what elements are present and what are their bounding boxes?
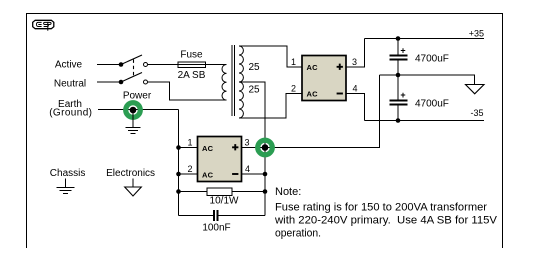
wire -35 rail [365,120,485,122]
wire bottom row right of 100nF [219,215,266,217]
wire secondary top to bridge BR1 pin 1 [239,46,302,67]
wire center tap down through green node to bottom row [239,82,265,216]
capacitor C2 plates [390,101,408,105]
svg-text:-35: -35 [470,108,483,118]
junction dot +35 rail / C1 [396,36,401,41]
transformer T1 secondary winding bottom [239,82,243,118]
svg-text:3: 3 [352,57,357,67]
svg-text:3: 3 [244,138,249,148]
electronics ground symbol [132,179,134,188]
junction dot mid rail [396,73,401,78]
wire Active switch to fuse to transformer primary [148,64,227,66]
wire mid rail to output ground [380,75,475,85]
junction dot resistor row left [176,189,181,194]
svg-text:+35: +35 [469,29,484,39]
BR2 label plus [232,144,238,150]
junction dot resistor row right [263,189,268,194]
ESP logo [33,20,54,31]
border frame [27,14,503,249]
power earth stem [132,110,134,128]
switch SW1b pole dot [119,80,124,85]
transformer T1 primary winding [222,65,227,101]
switch SW1a throw contact [144,63,148,67]
bridge rectifier BR1 body [302,56,346,101]
fuse F1 body [178,62,206,68]
bridge rectifier BR2 body [198,137,242,182]
green node ring [258,140,273,155]
svg-text:Power: Power [123,91,152,102]
wire Active row [97,64,121,66]
BR1 label plus [337,64,343,70]
svg-text:AC: AC [307,63,319,72]
wire secondary bottom to bridge BR1 pin 2 [239,94,302,119]
BR2 label minus [232,173,238,175]
svg-text:25: 25 [249,62,261,73]
wire BR2 pin 1 stub [179,147,198,149]
junction dot -35 rail / C2 [396,118,401,123]
wire BR2 pin 2 stub [179,173,198,175]
capacitor C3 plates [214,210,218,221]
wire BR2 pin 4 stub [242,173,266,175]
BR1 label minus [337,93,343,95]
svg-text:Note:: Note: [275,186,301,198]
switch SW1a pole dot [119,62,124,67]
wire capacitor C2 top lead [397,75,399,100]
svg-text:2: 2 [187,164,192,174]
svg-text:25: 25 [249,85,261,96]
svg-text:AC: AC [202,144,214,153]
svg-text:2A SB: 2A SB [178,70,206,81]
resistor R1 body [207,188,232,196]
switch SW1b throw contact [144,80,148,84]
svg-text:10/1W: 10/1W [210,196,239,207]
wire green node to mid rail [265,75,380,148]
svg-text:4: 4 [245,164,250,174]
junction dot BR2 pin1 [176,145,181,150]
wire BR1 pin 4 to -35 rail [346,94,365,121]
power earth symbol [126,128,141,134]
svg-text:+: + [400,46,405,56]
svg-text:Fuse rating is for 150 to 200V: Fuse rating is for 150 to 200VA transfor… [275,202,487,214]
wire Neutral to transformer [148,82,227,100]
chassis ground symbol [57,179,75,194]
junction dot BR2 pin4 right [263,172,268,177]
svg-text:4700uF: 4700uF [415,54,449,65]
wire BR2 pin 3 stub [242,147,266,149]
svg-text:Active: Active [55,60,83,71]
transformer T1 core [232,45,235,116]
svg-text:+: + [400,90,405,100]
wire Neutral row [97,81,121,83]
svg-text:AC: AC [202,171,214,180]
wire capacitor C1 top lead [397,39,399,55]
svg-text:4700uF: 4700uF [415,99,449,110]
wire Earth row [98,109,179,111]
svg-text:operation.: operation. [275,228,321,240]
wire capacitor C2 bottom lead [397,106,399,121]
svg-text:1: 1 [187,138,192,148]
svg-text:Electronics: Electronics [106,168,155,179]
svg-text:AC: AC [307,90,319,99]
svg-text:Fuse: Fuse [180,50,203,61]
svg-text:Chassis: Chassis [50,168,86,179]
switch SW1a blade [121,55,142,65]
capacitor C1 plates [390,56,408,60]
svg-text:(Ground): (Ground) [49,108,92,119]
transformer T1 secondary winding top [239,46,243,82]
wire bottom row left of 100nF [179,215,214,217]
wire left rail of loop breaker [178,110,180,216]
wire resistor row [179,191,266,193]
power earth node junction dot [130,107,137,114]
svg-text:2: 2 [291,84,296,94]
svg-text:100nF: 100nF [202,223,230,234]
power earth node green ring [126,103,141,118]
svg-text:with 220-240V primary. Use 4A: with 220-240V primary. Use 4A SB for 115… [274,215,498,227]
svg-text:Neutral: Neutral [54,79,86,90]
junction dot BR2 pin2 [176,172,181,177]
green node junction dot [262,144,269,151]
wire BR1 pin 3 to +35 rail [346,39,365,68]
output ground triangle [466,85,485,94]
switch SW1b blade [121,73,142,83]
svg-text:4: 4 [352,84,357,94]
wire capacitor C1 bottom lead [397,61,399,76]
switch mechanical link (dashed) [133,60,135,78]
wire +35 rail [365,38,485,40]
svg-text:1: 1 [291,57,296,67]
